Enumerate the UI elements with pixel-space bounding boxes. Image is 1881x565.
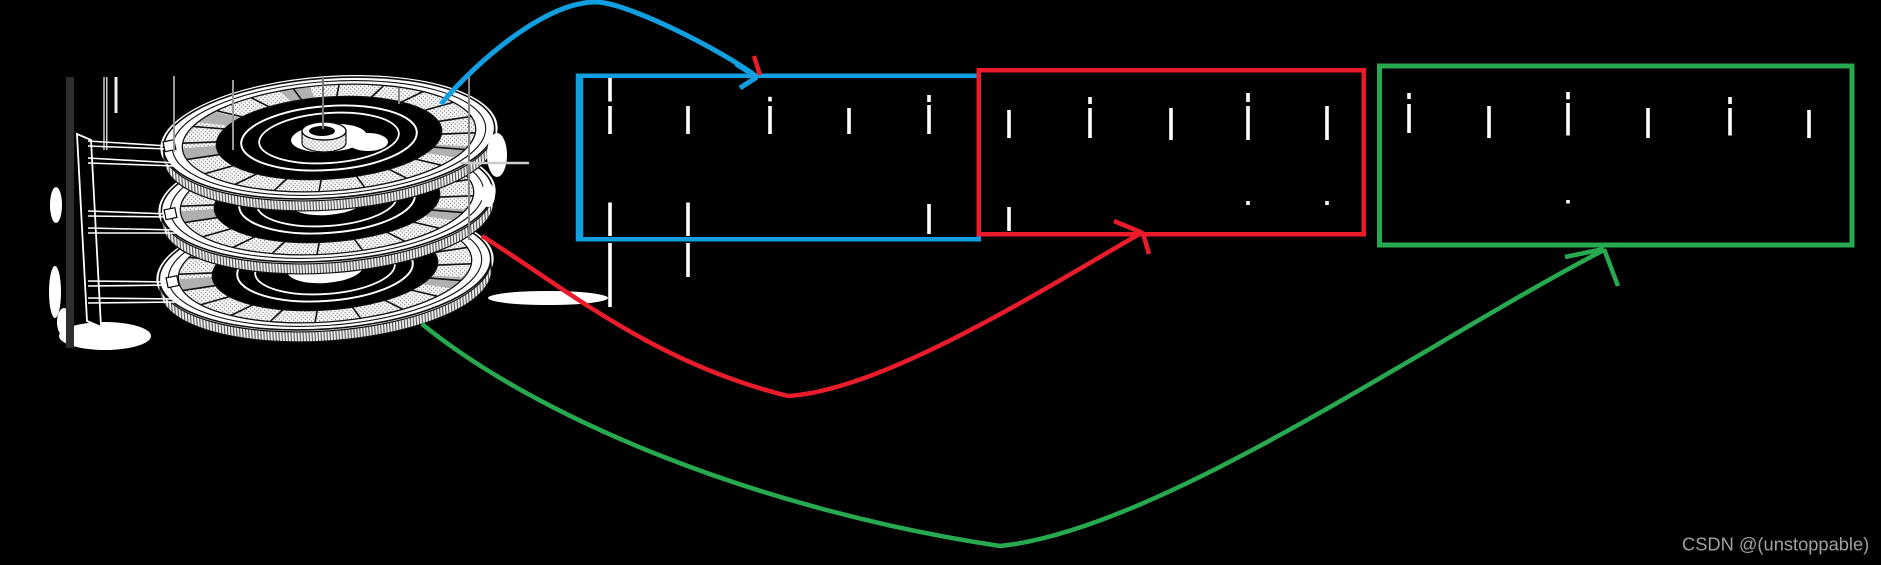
svg-text:CSDN @(unstoppable): CSDN @(unstoppable)	[1682, 534, 1869, 555]
